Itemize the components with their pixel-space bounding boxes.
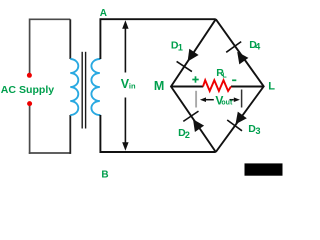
svg-text:M: M [154, 79, 164, 93]
svg-text:1: 1 [178, 42, 183, 52]
svg-text:4: 4 [255, 42, 260, 52]
svg-text:in: in [129, 81, 136, 90]
svg-text:AC Supply: AC Supply [1, 84, 54, 96]
svg-text:L: L [222, 73, 227, 80]
svg-text:out: out [221, 100, 233, 107]
svg-text:B: B [101, 170, 108, 178]
svg-text:3: 3 [256, 126, 261, 136]
svg-text:A: A [100, 8, 107, 19]
svg-text:2: 2 [185, 130, 190, 140]
svg-text:L: L [268, 81, 275, 93]
